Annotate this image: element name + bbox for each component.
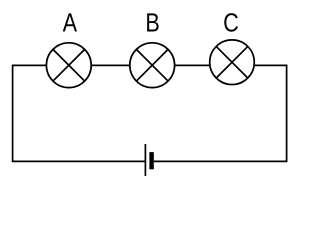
label B	[147, 13, 158, 31]
label C	[224, 13, 238, 32]
lamp B	[130, 43, 175, 88]
battery long plate	[144, 144, 146, 176]
wire left loop (lamp A to battery negative plate)	[13, 65, 145, 161]
lamp C	[210, 40, 255, 85]
wire lamp B to lamp C	[175, 64, 210, 66]
label A	[63, 13, 77, 31]
lamp A	[46, 43, 91, 88]
wire lamp A to lamp B	[91, 64, 130, 66]
wire right loop (battery positive plate to lamp C)	[154, 65, 287, 161]
battery short thick plate	[149, 152, 153, 169]
